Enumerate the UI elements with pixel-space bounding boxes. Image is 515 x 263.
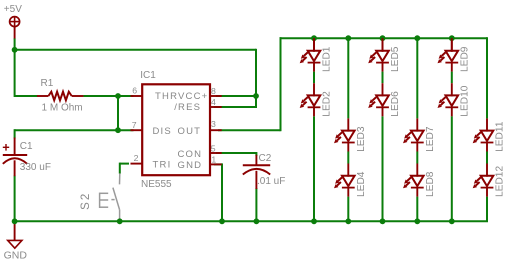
resistor R1 xyxy=(37,78,83,113)
switch S2 xyxy=(80,173,120,220)
LED LED1 xyxy=(300,39,333,73)
wire junction down xyxy=(117,96,119,130)
node pin8/VCC junction xyxy=(253,93,259,99)
capacitor C2 .01uF xyxy=(243,153,286,189)
svg-text:LED11: LED11 xyxy=(495,121,506,152)
svg-text:GND: GND xyxy=(4,250,28,262)
node +5V tap xyxy=(12,47,18,53)
svg-text:LED5: LED5 xyxy=(390,46,401,72)
svg-text:1: 1 xyxy=(211,155,216,165)
wire pin 2 xyxy=(120,163,129,165)
svg-text:LED1: LED1 xyxy=(322,46,333,72)
wire pin 2 down to S2 xyxy=(119,163,121,174)
svg-text:NE555: NE555 xyxy=(141,179,172,190)
wire LED column 6 segments xyxy=(486,37,488,118)
node DIS junction xyxy=(115,127,121,133)
node bottom bus junctions xyxy=(12,218,18,224)
svg-text:LED4: LED4 xyxy=(356,171,367,197)
svg-text:DIS: DIS xyxy=(153,126,172,137)
capacitor C1 330uF xyxy=(3,138,51,177)
wire OUT row xyxy=(218,129,281,131)
pin 3 stub xyxy=(210,129,222,131)
svg-text:S2: S2 xyxy=(80,192,92,210)
wire VCC down right xyxy=(255,49,257,107)
ground GND xyxy=(4,222,28,261)
svg-text:IC1: IC1 xyxy=(140,70,156,81)
svg-text:+5V: +5V xyxy=(4,4,22,15)
op-amp U1 IC1 NE555 box xyxy=(142,84,210,175)
wire DIS row xyxy=(15,129,134,131)
svg-text:TRI: TRI xyxy=(153,159,172,170)
svg-text:LED10: LED10 xyxy=(459,85,470,116)
svg-text:LED12: LED12 xyxy=(495,166,506,197)
wire pin 8 xyxy=(216,95,257,97)
wire top bus xyxy=(280,37,488,39)
LED LED3 xyxy=(334,118,367,151)
pin 7 stub xyxy=(131,129,143,131)
wire pin 4 xyxy=(214,106,257,108)
svg-text:LED8: LED8 xyxy=(425,171,436,197)
svg-text:THR: THR xyxy=(155,91,178,102)
svg-text:LED7: LED7 xyxy=(425,126,436,152)
LED LED6 xyxy=(368,83,401,117)
wire pin 1 xyxy=(214,163,222,165)
svg-text:OUT: OUT xyxy=(178,126,202,137)
LED LED2 xyxy=(300,83,333,117)
wire OUT rise xyxy=(280,37,282,131)
supply +5V xyxy=(4,4,22,39)
svg-text:C1: C1 xyxy=(20,141,33,152)
pin 4 stub xyxy=(210,106,222,108)
svg-text:4: 4 xyxy=(211,97,216,107)
svg-text:R1: R1 xyxy=(41,78,54,89)
wire R1 left xyxy=(15,95,38,97)
svg-text:CON: CON xyxy=(178,149,203,160)
wire bottom bus xyxy=(14,220,488,222)
svg-text:VCC+: VCC+ xyxy=(178,91,208,102)
svg-text:3: 3 xyxy=(211,119,216,129)
LED LED7 xyxy=(403,118,436,151)
pin 2 stub xyxy=(131,163,143,165)
wire +5V vertical xyxy=(14,39,16,98)
wire C2 to ground bus xyxy=(255,188,257,222)
svg-text:1 M Ohm: 1 M Ohm xyxy=(42,103,83,114)
svg-text:.01 uF: .01 uF xyxy=(257,176,285,187)
svg-text:LED2: LED2 xyxy=(322,91,333,117)
wire LED column 1 segments xyxy=(313,72,315,84)
svg-text:LED6: LED6 xyxy=(390,91,401,117)
wire down to C1 xyxy=(14,129,16,138)
node R1/pin6 junction xyxy=(115,93,121,99)
wire pin 1 down to bus xyxy=(221,163,223,222)
LED LED10 xyxy=(438,83,471,116)
LED LED12 xyxy=(473,164,506,198)
svg-text:/RES: /RES xyxy=(174,102,201,113)
svg-text:5: 5 xyxy=(211,143,216,153)
svg-text:LED3: LED3 xyxy=(356,126,367,152)
node top bus junctions xyxy=(311,35,317,41)
svg-text:330 uF: 330 uF xyxy=(20,162,51,173)
pin 1 stub xyxy=(210,163,222,165)
wire LED column 4 segments xyxy=(416,37,418,118)
LED LED9 xyxy=(438,39,471,72)
pin 8 stub xyxy=(210,95,222,97)
LED LED11 xyxy=(473,118,506,152)
wire LED column 2 segments xyxy=(347,37,349,118)
svg-text:2: 2 xyxy=(134,153,139,163)
LED LED8 xyxy=(403,164,436,197)
LED LED5 xyxy=(368,39,401,73)
pin 5 stub xyxy=(210,152,222,154)
svg-text:C2: C2 xyxy=(259,153,272,164)
svg-text:6: 6 xyxy=(132,86,137,96)
wire pin 5 to C2 xyxy=(216,152,256,154)
pin 6 stub xyxy=(131,95,143,97)
wire LED column 5 segments xyxy=(451,72,453,84)
wire R1 right to pin 6 xyxy=(83,95,133,97)
wire C2 corner xyxy=(255,152,257,156)
svg-text:8: 8 xyxy=(211,86,216,96)
svg-text:GND: GND xyxy=(178,160,203,171)
wire +5V rail to IC pin 8 xyxy=(14,49,256,51)
wire C1 to ground bus xyxy=(14,176,16,223)
wire LED stub overdots xyxy=(313,38,315,52)
svg-text:7: 7 xyxy=(132,120,137,130)
svg-text:LED9: LED9 xyxy=(459,46,470,72)
LED LED4 xyxy=(334,164,367,197)
wire LED column 3 segments xyxy=(382,72,384,84)
